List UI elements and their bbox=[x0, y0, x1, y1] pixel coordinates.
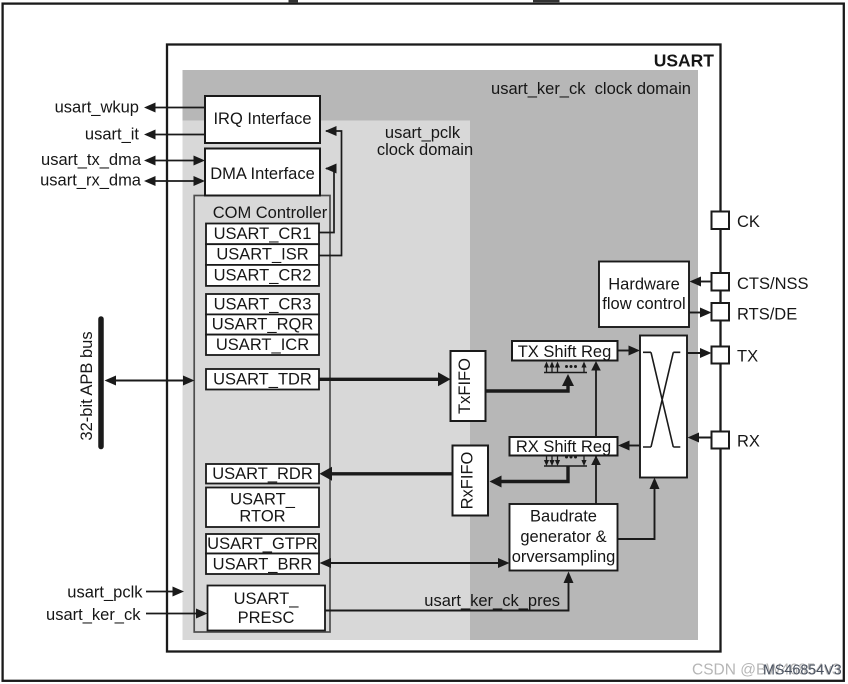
svg-text:usart_it: usart_it bbox=[85, 126, 140, 144]
Baudrate generator block bbox=[510, 504, 618, 571]
wire RX pin to switch bbox=[688, 433, 712, 443]
svg-text:PRESC: PRESC bbox=[238, 609, 295, 627]
register USART_RDR bbox=[206, 464, 319, 484]
wire USART_PRESC to baudrate generator, net usart_ker_ck_pres bbox=[325, 572, 574, 611]
svg-text:USART_: USART_ bbox=[230, 491, 296, 509]
wire usart_rx_dma bbox=[40, 172, 205, 190]
wire baudrate generator to switch bbox=[618, 478, 660, 540]
svg-text:Hardware: Hardware bbox=[608, 276, 680, 294]
svg-text:RX: RX bbox=[737, 433, 760, 451]
wire USART_BRR to baudrate generator (double arrow) bbox=[320, 558, 510, 568]
wire IRQ elbow from USART_ISR bbox=[319, 131, 342, 256]
wire usart_wkup bbox=[55, 99, 205, 117]
register USART_ISR bbox=[206, 244, 319, 265]
svg-text:clock domain: clock domain bbox=[377, 141, 473, 159]
pin RX bbox=[712, 432, 760, 451]
wire CTS/NSS pin to hardware flow control bbox=[690, 277, 712, 287]
wire TxFIFO to TX shift reg (thick) bbox=[486, 374, 575, 391]
svg-text:TxFIFO: TxFIFO bbox=[456, 358, 474, 414]
svg-text:USART_ICR: USART_ICR bbox=[216, 336, 309, 354]
register USART_PRESC bbox=[208, 586, 326, 631]
register USART_CR3 bbox=[206, 294, 319, 314]
svg-text:USART_GTPR: USART_GTPR bbox=[207, 535, 318, 553]
svg-text:32-bit APB bus: 32-bit APB bus bbox=[78, 331, 96, 440]
svg-text:USART: USART bbox=[654, 51, 715, 71]
svg-text:TX: TX bbox=[737, 348, 758, 366]
register USART_TDR bbox=[206, 369, 319, 390]
RX Shift Reg block bbox=[510, 437, 618, 456]
wire USART_TDR to TxFIFO (thick) bbox=[319, 372, 451, 386]
svg-text:usart_pclk: usart_pclk bbox=[385, 124, 461, 142]
svg-text:USART_TDR: USART_TDR bbox=[213, 371, 312, 389]
wire APB bus to COM controller bbox=[105, 376, 195, 386]
svg-text:CK: CK bbox=[737, 213, 760, 231]
wire usart_pclk bbox=[67, 584, 184, 602]
svg-text:USART_RDR: USART_RDR bbox=[212, 465, 313, 483]
wire DMA elbow from USART_CR1 bbox=[319, 169, 334, 233]
svg-text:generator &: generator & bbox=[520, 528, 606, 546]
svg-text:USART_ISR: USART_ISR bbox=[216, 246, 308, 264]
wire TX shift reg to switch bbox=[618, 346, 641, 356]
svg-text:MS46854V3: MS46854V3 bbox=[763, 663, 842, 679]
COM Controller box bbox=[194, 196, 330, 633]
svg-text:USART_BRR: USART_BRR bbox=[213, 555, 313, 573]
32-bit APB bus bar bbox=[98, 319, 104, 447]
svg-text:RX Shift Reg: RX Shift Reg bbox=[516, 438, 611, 456]
RX shift reg parallel-out ticks bbox=[544, 456, 587, 467]
wire switch to RX shift reg bbox=[618, 441, 640, 451]
DMA Interface block bbox=[205, 149, 320, 196]
register USART_RQR bbox=[206, 314, 319, 334]
pin RTS/DE bbox=[712, 303, 798, 324]
svg-text:USART_CR3: USART_CR3 bbox=[214, 295, 312, 313]
TxFIFO block bbox=[451, 351, 486, 421]
wire RxFIFO to USART_RDR (thick) bbox=[320, 467, 453, 481]
wire RX shift reg to RxFIFO (thick) bbox=[490, 467, 569, 488]
USART block outline bbox=[167, 45, 721, 652]
svg-text:usart_ker_ck: usart_ker_ck bbox=[46, 606, 141, 624]
svg-text:USART_RQR: USART_RQR bbox=[212, 316, 314, 334]
svg-text:USART_CR2: USART_CR2 bbox=[214, 267, 312, 285]
wire hardware flow control to RTS/DE pin bbox=[689, 308, 712, 318]
cut text remnant left bbox=[289, 0, 299, 2]
svg-text:RxFIFO: RxFIFO bbox=[459, 451, 477, 509]
svg-text:usart_ker_ck_pres: usart_ker_ck_pres bbox=[424, 592, 560, 610]
usart_ker_ck clock domain region bbox=[183, 70, 699, 640]
svg-text:COM Controller: COM Controller bbox=[213, 204, 328, 222]
register USART_CR1 bbox=[206, 224, 319, 245]
wire baudrate clock to TX shift reg bbox=[591, 361, 601, 504]
pin switch box bbox=[640, 336, 687, 478]
svg-text:CTS/NSS: CTS/NSS bbox=[737, 275, 809, 293]
pin CK bbox=[712, 212, 760, 232]
svg-text:usart_rx_dma: usart_rx_dma bbox=[40, 172, 142, 190]
svg-text:usart_ker_ck clock domain: usart_ker_ck clock domain bbox=[491, 80, 691, 98]
wire switch to TX pin bbox=[687, 348, 712, 358]
RxFIFO block bbox=[453, 446, 489, 516]
svg-text:RTS/DE: RTS/DE bbox=[737, 306, 797, 324]
usart_pclk clock domain region bbox=[183, 121, 471, 641]
wire usart_tx_dma bbox=[41, 151, 205, 169]
Hardware flow control block bbox=[599, 262, 689, 328]
register USART_ICR bbox=[206, 335, 319, 355]
IRQ Interface block bbox=[205, 96, 320, 143]
TX shift reg parallel-load ticks bbox=[544, 362, 587, 373]
svg-text:usart_pclk: usart_pclk bbox=[67, 584, 143, 602]
svg-text:usart_wkup: usart_wkup bbox=[55, 99, 139, 117]
TX Shift Reg block bbox=[512, 341, 618, 361]
svg-text:IRQ Interface: IRQ Interface bbox=[213, 110, 311, 128]
svg-text:USART_: USART_ bbox=[234, 590, 300, 608]
svg-text:usart_tx_dma: usart_tx_dma bbox=[41, 151, 142, 169]
svg-text:TX Shift Reg: TX Shift Reg bbox=[518, 343, 612, 361]
pin TX bbox=[712, 347, 759, 366]
cut text remnant right bbox=[533, 0, 560, 2]
svg-text:Baudrate: Baudrate bbox=[530, 508, 597, 526]
wire usart_ker_ck bbox=[46, 606, 207, 624]
svg-text:USART_CR1: USART_CR1 bbox=[214, 225, 312, 243]
svg-text:orversampling: orversampling bbox=[512, 548, 616, 566]
register USART_RTOR bbox=[206, 488, 319, 528]
svg-text:DMA Interface: DMA Interface bbox=[210, 165, 315, 183]
register USART_BRR bbox=[206, 554, 319, 575]
wire usart_it bbox=[85, 126, 205, 144]
svg-text:RTOR: RTOR bbox=[239, 508, 285, 526]
register USART_CR2 bbox=[206, 265, 319, 286]
register USART_GTPR bbox=[206, 534, 319, 554]
svg-text:flow control: flow control bbox=[602, 295, 685, 313]
pin CTS/NSS bbox=[712, 273, 809, 293]
